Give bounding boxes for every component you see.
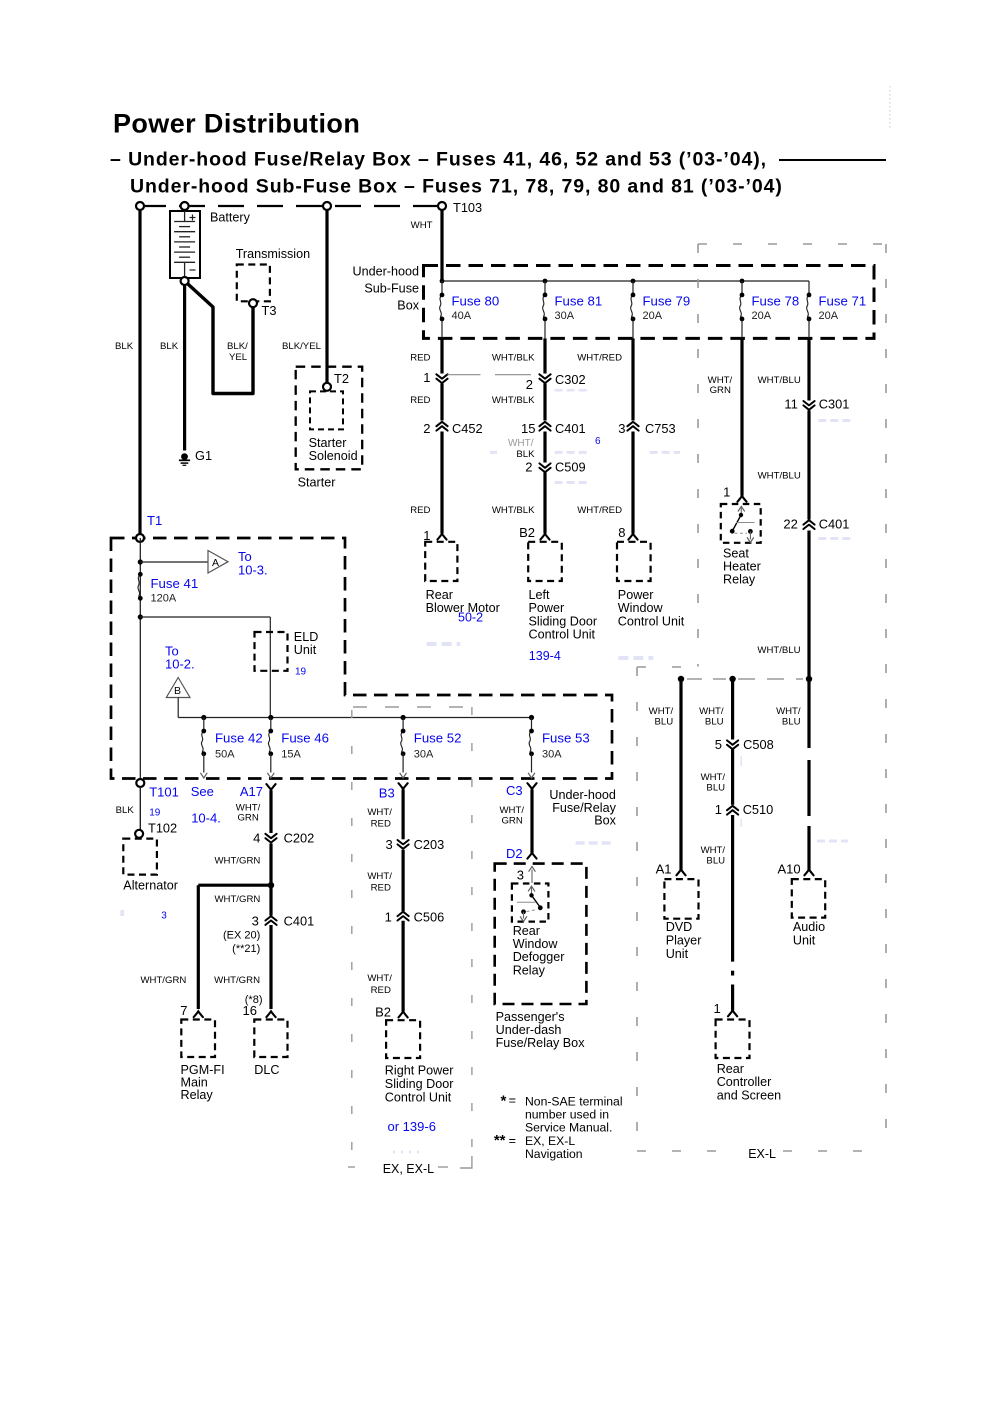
- svg-text:=: =: [509, 1134, 516, 1148]
- passenger's under-dash fuse/relay box outline: [495, 864, 587, 1004]
- svg-text:*: *: [500, 1093, 506, 1110]
- svg-text:C508: C508: [743, 737, 774, 752]
- svg-text:B2: B2: [375, 1004, 391, 1019]
- faint artifact audio col: [817, 840, 848, 843]
- fuse Fuse 81 (30A): [543, 295, 545, 319]
- svg-text:WHT/GRN: WHT/GRN: [214, 894, 260, 905]
- svg-text:Solenoid: Solenoid: [309, 449, 358, 463]
- connector C506 chevron: [398, 912, 409, 921]
- thin exit arrow Fuse 53: [528, 773, 535, 778]
- svg-text:WHT/BLK: WHT/BLK: [492, 353, 535, 364]
- svg-text:3: 3: [161, 911, 167, 922]
- connector housing line: [448, 374, 481, 376]
- wire Fuse 81 column inside box: [544, 281, 546, 295]
- svg-text:BLK: BLK: [160, 341, 179, 352]
- battery: [170, 211, 200, 278]
- chevron wire end left sliding door: [540, 534, 549, 540]
- svg-text:Relay: Relay: [181, 1088, 214, 1102]
- terminal: T1 top node: [136, 202, 144, 210]
- junction dot A17/PGM-FI: [268, 882, 274, 888]
- terminal: battery positive node: [181, 202, 189, 210]
- svg-text:WHT/GRN: WHT/GRN: [214, 856, 260, 867]
- svg-text:2: 2: [423, 421, 430, 436]
- svg-text:Fuse 46: Fuse 46: [281, 730, 329, 745]
- svg-text:15: 15: [521, 421, 535, 436]
- rear blower motor box: [425, 542, 457, 581]
- wire Fuse 79 column inside box: [632, 281, 634, 295]
- faint artifact under rear blower: [427, 642, 461, 646]
- fuse Fuse 78 (20A): [740, 295, 742, 319]
- faint artifact near D2: [576, 841, 614, 845]
- svg-text:C753: C753: [645, 421, 676, 436]
- wire C3 to D2: [530, 789, 533, 852]
- svg-text:Fuse 80: Fuse 80: [452, 294, 500, 309]
- wire Fuse 80 column inside box: [441, 281, 443, 295]
- svg-text:B2: B2: [519, 525, 535, 540]
- svg-text:Fuse 52: Fuse 52: [414, 730, 462, 745]
- svg-text:Control Unit: Control Unit: [529, 628, 596, 642]
- svg-text:10-4.: 10-4.: [191, 811, 221, 826]
- EX,EX-L box left boundary: [351, 710, 353, 1158]
- faint dotted artifact top right: [889, 86, 891, 130]
- svg-text:120A: 120A: [151, 593, 177, 605]
- wire rear controller upper (WHT/BLU): [731, 679, 734, 740]
- svg-text:(EX 20): (EX 20): [223, 930, 260, 942]
- svg-text:Navigation: Navigation: [525, 1147, 583, 1161]
- svg-text:WHT/RED: WHT/RED: [577, 505, 622, 516]
- wire ELD column down: [269, 617, 271, 718]
- wire fuse79 column (WHT/RED): [631, 338, 634, 420]
- junction fuse row x=403.1: [401, 715, 406, 720]
- svg-text:Player: Player: [666, 933, 702, 947]
- EX-L junction dashed bus: [687, 678, 726, 680]
- terminal T102: [135, 830, 143, 838]
- svg-text:C509: C509: [555, 460, 586, 475]
- EX-L region top edge: [698, 243, 886, 245]
- svg-text:WHT: WHT: [411, 220, 433, 231]
- svg-text:Relay: Relay: [513, 963, 546, 977]
- connector C401-22 chevron: [803, 520, 814, 529]
- svg-text:3: 3: [252, 913, 259, 928]
- svg-text:– Under-hood Fuse/Relay Box –: – Under-hood Fuse/Relay Box – Fuses 41, …: [110, 149, 767, 171]
- svg-text:See: See: [191, 784, 214, 799]
- svg-text:22: 22: [783, 517, 797, 532]
- svg-text:19: 19: [295, 666, 307, 677]
- fuse Fuse 46 (15A): [268, 731, 270, 754]
- svg-text:Unit: Unit: [666, 947, 689, 961]
- DVD player unit box: [664, 879, 698, 919]
- svg-text:A1: A1: [656, 862, 672, 877]
- chevron C3: [527, 783, 536, 789]
- svg-text:EX, EX-L: EX, EX-L: [525, 1134, 575, 1148]
- EX-L box step edge: [637, 666, 698, 668]
- svg-text:10-2.: 10-2.: [165, 657, 195, 672]
- chevron wire end DLC: [266, 1011, 275, 1017]
- svg-text:WHT/BLK: WHT/BLK: [492, 505, 535, 516]
- fuse Fuse 52 (30A): [401, 731, 403, 754]
- junction fuse row x=531.5: [529, 715, 534, 720]
- svg-text:Unit: Unit: [294, 643, 317, 657]
- wire junction to C401: [269, 885, 272, 915]
- svg-text:Window: Window: [618, 601, 664, 615]
- svg-text:G1: G1: [195, 448, 212, 463]
- svg-text:WHT/: WHT/: [367, 973, 392, 984]
- svg-text:15A: 15A: [281, 749, 301, 761]
- svg-text:30A: 30A: [414, 749, 434, 761]
- svg-text:20A: 20A: [819, 310, 839, 322]
- svg-text:2: 2: [525, 460, 532, 475]
- svg-text:T102: T102: [148, 821, 177, 836]
- svg-text:A17: A17: [240, 784, 263, 799]
- svg-text:BLU: BLU: [655, 716, 674, 727]
- wire Fuse 52 exit: [402, 754, 404, 773]
- svg-text:number used in: number used in: [525, 1108, 609, 1122]
- svg-text:B3: B3: [379, 786, 395, 801]
- wire: battery to G1 (BLK): [183, 281, 186, 451]
- svg-text:C3: C3: [506, 783, 523, 798]
- svg-text:Sub-Fuse: Sub-Fuse: [364, 282, 419, 296]
- svg-text:BLU: BLU: [706, 855, 725, 866]
- svg-text:139-4: 139-4: [529, 649, 561, 663]
- svg-text:RED: RED: [371, 819, 391, 830]
- svg-text:RED: RED: [410, 395, 430, 406]
- svg-text:4: 4: [253, 831, 260, 846]
- svg-text:C452: C452: [452, 421, 483, 436]
- connector C202 chevron: [265, 834, 276, 843]
- svg-text:Power Distribution: Power Distribution: [113, 109, 360, 139]
- svg-text:Under-hood Sub-Fuse Box – Fuse: Under-hood Sub-Fuse Box – Fuses 71, 78, …: [130, 176, 783, 198]
- svg-text:50A: 50A: [215, 749, 235, 761]
- svg-text:Fuse 41: Fuse 41: [151, 576, 199, 591]
- EX-L box bottom edge: [637, 1150, 742, 1152]
- svg-text:BLU: BLU: [706, 782, 725, 793]
- svg-text:EX, EX-L: EX, EX-L: [383, 1162, 434, 1176]
- terminal T103: [438, 202, 446, 210]
- svg-text:2: 2: [526, 377, 533, 392]
- svg-text:DLC: DLC: [254, 1063, 279, 1077]
- svg-text:WHT/BLK: WHT/BLK: [492, 395, 535, 406]
- chevron wire end PGM-FI: [194, 1011, 203, 1017]
- svg-text:BLU: BLU: [782, 716, 801, 727]
- svg-text:T2: T2: [334, 371, 349, 386]
- node on bus at Fuse 79: [631, 279, 636, 284]
- wire junction to PGM-FI branch: [198, 884, 271, 887]
- EX,EX-L box bottom fragments: [348, 1166, 361, 1168]
- svg-text:C203: C203: [414, 837, 445, 852]
- chevron B3: [399, 783, 408, 789]
- thin exit arrow Fuse 42: [200, 773, 207, 778]
- EX,EX-L box right boundary: [471, 707, 473, 1160]
- svg-text:3: 3: [517, 868, 524, 883]
- svg-text:Rear: Rear: [513, 924, 540, 938]
- svg-text:C506: C506: [414, 910, 445, 925]
- wire C202 to junction: [269, 844, 272, 886]
- triangle B (to 10-2): [166, 678, 190, 698]
- under-hood fuse/relay box outline: [111, 538, 612, 779]
- svg-text:5: 5: [715, 737, 722, 752]
- fuse Fuse 71 (20A): [807, 295, 809, 319]
- svg-text:Under-hood: Under-hood: [352, 265, 419, 279]
- chevron wire end rear controller: [728, 1011, 737, 1017]
- terminal: battery negative node: [181, 277, 189, 285]
- junction node rear controller: [729, 676, 735, 682]
- svg-text:Under-hood: Under-hood: [549, 788, 616, 802]
- EX-L region left boundary upper: [697, 244, 699, 667]
- svg-text:8: 8: [618, 525, 625, 540]
- alternator box: [123, 839, 157, 875]
- svg-text:Starter: Starter: [309, 436, 347, 450]
- svg-text:WHT/RED: WHT/RED: [577, 353, 622, 364]
- svg-text:C301: C301: [819, 397, 850, 412]
- fuse row bus: [178, 717, 531, 719]
- wire Fuse 42 exit: [203, 754, 205, 773]
- wire B3 to C203: [402, 789, 405, 839]
- svg-text:RED: RED: [371, 882, 391, 893]
- svg-text:30A: 30A: [555, 310, 575, 322]
- svg-text:1: 1: [423, 370, 430, 385]
- terminal T3: [249, 299, 257, 307]
- pin 3 arrow into defogger relay: [531, 870, 533, 884]
- svg-text:**: **: [494, 1132, 506, 1149]
- seat heater relay contacts: [738, 506, 745, 511]
- connector C302 chevron: [539, 374, 550, 383]
- svg-text:Fuse 71: Fuse 71: [819, 294, 867, 309]
- svg-text:Controller: Controller: [717, 1075, 772, 1089]
- svg-text:40A: 40A: [452, 310, 472, 322]
- svg-text:50-2: 50-2: [458, 611, 483, 625]
- svg-text:Fuse 79: Fuse 79: [643, 294, 691, 309]
- svg-text:GRN: GRN: [501, 815, 522, 826]
- wire C401 to DLC: [269, 925, 272, 1009]
- fuse Fuse 42 (50A): [201, 731, 203, 754]
- svg-text:T3: T3: [262, 303, 277, 318]
- connector C401-3 chevron: [265, 916, 276, 925]
- svg-text:EX-L: EX-L: [748, 1147, 776, 1161]
- terminal T1: [136, 534, 144, 542]
- svg-text:BLU: BLU: [705, 716, 724, 727]
- connector C510 chevron: [727, 806, 738, 815]
- svg-text:3: 3: [618, 421, 625, 436]
- svg-text:Fuse 53: Fuse 53: [542, 730, 590, 745]
- svg-text:RED: RED: [371, 985, 391, 996]
- svg-text:20A: 20A: [643, 310, 663, 322]
- thin exit arrow Fuse 46: [267, 773, 274, 778]
- connector C508 chevron: [727, 740, 738, 749]
- connector C509 chevron: [539, 463, 550, 472]
- fuse Fuse 79 (20A): [631, 295, 633, 319]
- wire Fuse 52 top: [402, 718, 404, 732]
- terminal T2: [323, 383, 331, 391]
- svg-text:BLK/: BLK/: [227, 341, 248, 352]
- svg-text:3: 3: [385, 837, 392, 852]
- svg-text:=: =: [509, 1094, 516, 1108]
- svg-text:ELD: ELD: [294, 630, 319, 644]
- connector C452 chevron: [436, 422, 447, 431]
- svg-text:WHT/: WHT/: [367, 871, 392, 882]
- EX-L box left boundary: [636, 667, 638, 1151]
- rear controller and screen box: [716, 1020, 750, 1059]
- right power sliding door box: [386, 1020, 420, 1058]
- wire T1 to T101 (thin): [139, 538, 141, 779]
- wire Fuse 53 exit: [531, 754, 533, 773]
- svg-text:10-3.: 10-3.: [238, 563, 268, 578]
- faint artifacts row3: [555, 481, 589, 484]
- ELD unit box: [255, 632, 288, 671]
- connector pin 1 chevron (fuse80 side): [436, 374, 447, 383]
- chevron wire end DVD: [676, 870, 685, 876]
- svg-text:Fuse 81: Fuse 81: [555, 294, 603, 309]
- connector C301 chevron: [803, 401, 814, 410]
- wire fuse81 column (WHT/BLK): [543, 338, 546, 373]
- faint artifact left of 3: [120, 910, 124, 916]
- starter solenoid box: [310, 391, 343, 429]
- junction node audio: [806, 676, 812, 682]
- svg-text:Seat: Seat: [723, 546, 749, 560]
- svg-text:WHT/: WHT/: [701, 772, 726, 783]
- svg-text:C401: C401: [555, 421, 586, 436]
- faint artifact under power window: [618, 656, 653, 660]
- svg-text:Transmission: Transmission: [236, 247, 310, 261]
- faint artifacts row1: [555, 389, 589, 392]
- wire DVD column (WHT/BLU): [679, 679, 682, 870]
- svg-text:6: 6: [595, 436, 601, 447]
- svg-text:GRN: GRN: [237, 812, 258, 823]
- wire C506 to B2: [402, 921, 405, 1012]
- rear window defogger relay box: [512, 884, 549, 922]
- fuse Fuse 80 (40A): [440, 295, 442, 319]
- fuse 41 (120A): [138, 574, 140, 598]
- svg-text:Audio: Audio: [793, 920, 825, 934]
- svg-text:BLK/YEL: BLK/YEL: [282, 341, 322, 352]
- svg-text:GRN: GRN: [710, 385, 731, 396]
- svg-text:WHT/GRN: WHT/GRN: [214, 975, 260, 986]
- svg-text:Power: Power: [618, 588, 654, 602]
- svg-text:Sliding Door: Sliding Door: [529, 614, 598, 628]
- junction fuse row x=270.8: [268, 715, 273, 720]
- svg-text:C302: C302: [555, 372, 586, 387]
- svg-text:WHT/: WHT/: [508, 438, 534, 449]
- junction fuse row x=203.8: [201, 715, 206, 720]
- svg-text:RED: RED: [410, 505, 430, 516]
- wire Fuse 53 top: [531, 718, 533, 732]
- wire to triangle A: [140, 561, 208, 563]
- svg-text:WHT/: WHT/: [776, 706, 801, 717]
- chevron wire end audio: [804, 870, 813, 876]
- svg-text:T1: T1: [147, 513, 162, 528]
- faint tick C508: [740, 756, 742, 766]
- wire Fuse 46 exit: [270, 754, 272, 773]
- svg-text:Starter: Starter: [298, 476, 336, 490]
- ground G1: [181, 453, 188, 460]
- faint artifact below 139-6: [393, 1151, 425, 1154]
- faint artifacts row2: [555, 451, 589, 454]
- PGM-FI main relay box: [181, 1020, 215, 1058]
- svg-text:20A: 20A: [752, 310, 772, 322]
- chevron A17: [266, 784, 275, 790]
- wire: battery to transmission BLK/YEL U-path: [185, 281, 253, 394]
- node on bus at Fuse 81: [543, 279, 548, 284]
- connector C401-15 chevron: [539, 422, 550, 431]
- svg-text:RED: RED: [410, 353, 430, 364]
- svg-text:Right Power: Right Power: [385, 1064, 454, 1078]
- sub-fuse box internal bus: [442, 280, 809, 282]
- wire fuse41 junction to ELD column: [140, 616, 270, 618]
- wire A17 to C202: [269, 790, 272, 833]
- svg-text:Service Manual.: Service Manual.: [525, 1121, 612, 1135]
- chevron wire end right sliding door: [399, 1012, 408, 1018]
- svg-text:Alternator: Alternator: [123, 879, 178, 893]
- svg-text:Fuse 78: Fuse 78: [752, 294, 800, 309]
- svg-text:11: 11: [784, 397, 798, 412]
- starter box: [296, 367, 363, 470]
- svg-text:B: B: [174, 685, 181, 697]
- connector C753 chevron: [627, 422, 638, 431]
- faint tick C510: [740, 819, 742, 827]
- svg-text:19: 19: [149, 807, 161, 818]
- wire: bus to starter T2 (BLK/YEL): [325, 206, 328, 387]
- svg-text:YEL: YEL: [229, 352, 248, 363]
- svg-text:Rear: Rear: [426, 588, 453, 602]
- svg-text:Box: Box: [594, 814, 616, 828]
- terminal T101: [136, 779, 144, 787]
- svg-text:WHT/: WHT/: [708, 375, 733, 386]
- triangle A (to 10-3): [208, 551, 228, 574]
- svg-text:30A: 30A: [542, 749, 562, 761]
- svg-text:BLK: BLK: [115, 341, 134, 352]
- svg-text:WHT/: WHT/: [701, 845, 726, 856]
- svg-text:D2: D2: [506, 846, 523, 861]
- svg-text:Non-SAE terminal: Non-SAE terminal: [525, 1095, 623, 1109]
- junction node DVD: [678, 676, 684, 682]
- connector C203 chevron: [398, 840, 409, 849]
- svg-text:7: 7: [180, 1003, 187, 1018]
- wire audio column dashed (WHT/BLU): [807, 679, 810, 748]
- power window control unit box: [617, 542, 651, 581]
- svg-text:C401: C401: [284, 913, 315, 928]
- svg-text:Fuse/Relay Box: Fuse/Relay Box: [496, 1036, 586, 1050]
- wire C203 to C506: [402, 850, 405, 911]
- rear window defogger relay contacts: [528, 886, 535, 891]
- svg-text:(**21): (**21): [232, 943, 260, 955]
- svg-text:C401: C401: [819, 517, 850, 532]
- wire fuse71 column (WHT/BLU): [807, 338, 810, 400]
- svg-text:Battery: Battery: [210, 211, 251, 225]
- svg-text:Unit: Unit: [793, 933, 816, 947]
- wire: T1 feed (BLK): [138, 206, 141, 538]
- chevron wire end power window: [628, 534, 637, 540]
- wire Fuse 78 column inside box: [741, 281, 743, 295]
- svg-text:WHT/BLU: WHT/BLU: [757, 645, 800, 656]
- EX,EX-L box top edge: [353, 706, 472, 708]
- wire T101 to T102: [139, 787, 141, 830]
- left power sliding door box: [528, 542, 562, 581]
- svg-text:BLK: BLK: [516, 449, 535, 460]
- EX-L region right boundary: [885, 244, 887, 1151]
- svg-text:BLK: BLK: [116, 805, 135, 816]
- svg-text:1: 1: [713, 1001, 720, 1016]
- wire: battery positive bus (dashed): [140, 205, 442, 207]
- fuse Fuse 53 (30A): [529, 731, 531, 754]
- svg-text:WHT/: WHT/: [367, 807, 392, 818]
- svg-text:Left: Left: [529, 588, 551, 602]
- svg-text:Control Unit: Control Unit: [618, 614, 685, 628]
- svg-text:C510: C510: [743, 802, 774, 817]
- under-hood sub-fuse box outline: [424, 266, 875, 339]
- svg-text:Box: Box: [397, 299, 419, 313]
- wire Fuse 71 column inside box: [808, 281, 810, 295]
- svg-text:1: 1: [385, 910, 392, 925]
- svg-text:A10: A10: [778, 862, 801, 877]
